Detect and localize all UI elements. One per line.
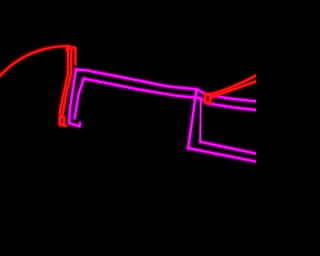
wire arc into R1 top — [0, 46, 70, 76]
probe arrow tip loop at junction B — [205, 94, 211, 104]
wire mid leg right — [198, 99, 202, 142]
wire top inner — [84, 79, 256, 110]
wire top outer (node A to node B) — [76, 70, 256, 102]
resistor R1 left side — [60, 48, 68, 126]
probe arrow lower line — [211, 81, 256, 97]
wire bottom upper — [200, 142, 256, 154]
wire bottom lower — [188, 148, 256, 161]
resistor R1 top cap — [67, 48, 71, 51]
resistor R1 bottom terminal loop — [60, 117, 65, 125]
wire left leg inner — [75, 79, 84, 119]
wire mid leg left (junction B down) — [188, 89, 196, 148]
wire left leg outer with bottom hook — [69, 70, 80, 127]
resistor R1 top cap overdraw stroke — [71, 48, 75, 65]
resistor R1 right side — [62, 49, 71, 117]
probe arrow upper line — [210, 76, 256, 95]
